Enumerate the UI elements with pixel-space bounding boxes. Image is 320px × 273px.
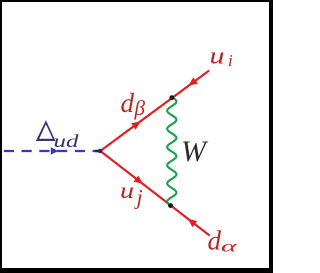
svg-text:W: W xyxy=(181,135,209,168)
junction dot bottom xyxy=(168,203,173,208)
arrow u_i (points toward W junction, down-left) xyxy=(186,77,198,89)
arrow on dashed line xyxy=(51,147,59,155)
svg-text:ud: ud xyxy=(54,131,80,151)
fermion line d_beta / u_i (upper red) xyxy=(100,71,209,152)
vertex dot xyxy=(95,150,100,153)
arrow u_j (points away from vertex, down-right) xyxy=(134,175,146,187)
border matte right xyxy=(269,0,273,273)
arrow d_beta (points away from vertex, up-right) xyxy=(131,118,143,130)
wire: incoming scalar dashed line xyxy=(4,150,101,152)
label Δ (custom narrow slanted hollow triangle) xyxy=(36,120,56,141)
fermion line u_j / d_alpha (lower red) xyxy=(100,151,209,236)
junction dot top xyxy=(169,95,174,100)
border matte top xyxy=(0,0,273,2)
border matte bottom xyxy=(0,268,273,273)
W boson wavy propagator xyxy=(167,97,176,206)
border matte left xyxy=(0,0,2,273)
arrow d_alpha (points toward W junction, up-left) xyxy=(185,216,197,228)
